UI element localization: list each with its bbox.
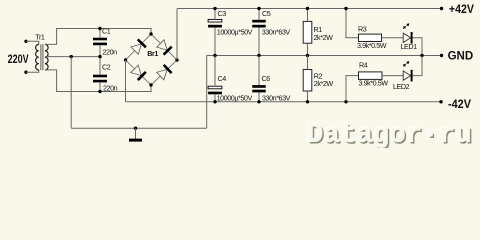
svg-text:3.9k*0.5W: 3.9k*0.5W — [357, 41, 387, 50]
node R1/R2 GND junction — [306, 54, 309, 57]
wire — [307, 56, 309, 70]
resistor R1 — [303, 21, 312, 43]
node -42V terminal — [439, 100, 442, 103]
node center-tap junction — [70, 55, 73, 58]
node R4 branch — [344, 100, 347, 103]
wire — [307, 43, 309, 55]
wire GND bus — [207, 55, 442, 57]
node R1 top — [306, 7, 309, 10]
LED LED1 — [403, 33, 410, 42]
wire — [214, 9, 216, 20]
capacitor C5 — [252, 20, 266, 23]
LED LED2 — [403, 71, 410, 80]
node C3 top — [213, 7, 216, 10]
svg-text:3.9k*0.5W: 3.9k*0.5W — [359, 78, 389, 87]
wire LED1 to GND — [413, 38, 422, 56]
node bridge AC1 (top vertex) — [149, 32, 152, 35]
node C4 bottom — [213, 100, 216, 103]
node primary bottom terminal — [24, 71, 27, 74]
node bridge AC2 (bottom vertex) — [149, 83, 152, 86]
resistor R4 — [359, 72, 383, 80]
svg-text:-42V: -42V — [448, 99, 471, 111]
diode bridge D3 (L to B) — [131, 65, 142, 76]
node C5 top — [257, 7, 260, 10]
svg-text:2k*2W: 2k*2W — [314, 33, 334, 42]
svg-text:220V: 220V — [8, 54, 29, 66]
wire — [214, 28, 216, 56]
transformer Tr1 core — [40, 44, 42, 70]
wire bottom ground bus — [71, 127, 207, 129]
wire — [214, 94, 216, 102]
wire — [382, 75, 403, 77]
node bridge plus (right vertex) — [175, 58, 178, 61]
svg-text:R4: R4 — [359, 61, 368, 70]
svg-text:+42V: +42V — [449, 4, 474, 16]
wire bridge plus to +42V rail — [176, 9, 178, 61]
svg-text:C5: C5 — [262, 9, 271, 18]
svg-text:R3: R3 — [358, 25, 367, 34]
svg-text:10000µ*50V: 10000µ*50V — [217, 93, 253, 102]
ground — [135, 128, 137, 138]
capacitor C6 — [252, 85, 266, 88]
resistor R2 — [303, 70, 312, 92]
diode bridge D2 (T to R) — [157, 40, 167, 50]
transformer Tr1 secondary winding — [45, 44, 48, 70]
svg-text:C1: C1 — [102, 26, 111, 35]
node C6 bottom — [257, 100, 260, 103]
node bridge minus (left vertex) — [124, 58, 127, 61]
capacitor C1 — [93, 38, 107, 41]
wire — [258, 9, 260, 20]
wire — [382, 37, 404, 39]
wire bridge side L-B — [126, 60, 152, 85]
svg-text:C3: C3 — [218, 9, 227, 18]
svg-text:10000µ*50V: 10000µ*50V — [217, 27, 253, 36]
svg-text:330n*63V: 330n*63V — [262, 27, 291, 36]
wire — [307, 91, 309, 102]
diode bridge D4 (B to R) — [157, 69, 168, 79]
wire -42V rail to R4 — [346, 76, 359, 102]
node R3 branch — [344, 7, 347, 10]
transformer Tr1 primary winding — [36, 44, 39, 70]
wire — [99, 57, 101, 75]
svg-text:220n: 220n — [103, 48, 118, 57]
wire — [258, 28, 260, 56]
resistor R3 — [359, 34, 382, 41]
wire +42V rail to R3 — [346, 9, 359, 38]
capacitor C4 — [208, 86, 222, 89]
wire bridge minus to -42V rail — [125, 60, 127, 102]
svg-text:220n: 220n — [103, 83, 118, 92]
svg-text:C6: C6 — [262, 74, 271, 83]
svg-text:Tr1: Tr1 — [35, 33, 45, 42]
wire — [26, 70, 39, 72]
node C5/C6 GND junction — [257, 54, 260, 57]
wire — [99, 29, 101, 38]
node LED return junction — [420, 54, 423, 57]
wire — [99, 45, 101, 56]
svg-text:330n*63V: 330n*63V — [262, 93, 291, 102]
wire — [307, 9, 309, 22]
wire center tap to ground bus — [70, 57, 72, 129]
svg-text:C4: C4 — [218, 74, 227, 83]
wire center tap — [45, 56, 100, 58]
svg-text:Br1: Br1 — [147, 49, 158, 58]
wire — [214, 56, 216, 87]
svg-text:2k*2W: 2k*2W — [314, 79, 334, 88]
node +42V terminal — [440, 7, 443, 10]
node ground junction — [134, 127, 137, 130]
node primary top terminal — [24, 40, 27, 43]
capacitor C2 — [93, 75, 107, 78]
wire — [258, 56, 260, 86]
node C2 bottom junction — [98, 90, 101, 93]
wire LED2 to GND — [413, 56, 422, 76]
wire bridge side B-R — [151, 60, 177, 85]
node C1 top junction — [98, 27, 101, 30]
wire — [258, 92, 260, 101]
wire bridge side L-T — [126, 34, 152, 60]
svg-text:GND: GND — [448, 50, 474, 62]
svg-text:Datagor·ru: Datagor·ru — [307, 120, 472, 148]
wire secondary top to AC1 — [45, 29, 151, 45]
wire — [99, 82, 101, 91]
wire GND bus drop — [206, 56, 208, 129]
wire bridge side T-R — [151, 34, 177, 60]
node C1/C2 midpoint — [98, 55, 101, 58]
capacitor C3 — [208, 19, 222, 22]
node C3/C4 GND junction — [213, 54, 216, 57]
wire secondary bottom to AC2 — [45, 70, 151, 92]
diode bridge D1 (L to T) — [131, 44, 141, 55]
node R2 bottom — [306, 100, 309, 103]
wire +42V rail — [177, 8, 442, 10]
node GND terminal — [440, 54, 443, 57]
wire -42V rail — [126, 101, 442, 103]
svg-text:C2: C2 — [102, 63, 111, 72]
svg-text:LED2: LED2 — [393, 82, 410, 91]
wire — [26, 41, 39, 44]
svg-text:LED1: LED1 — [401, 42, 418, 51]
